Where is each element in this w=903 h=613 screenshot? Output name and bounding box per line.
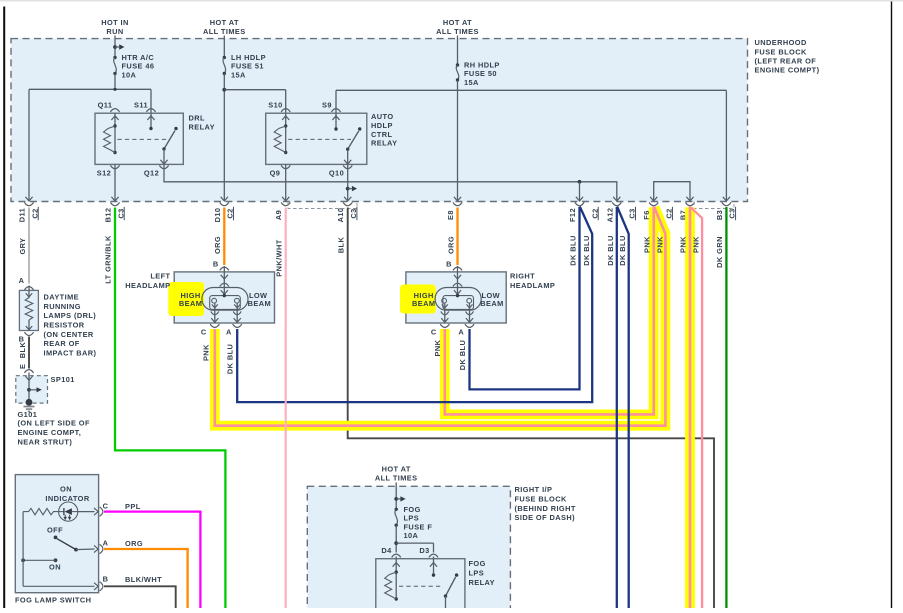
headlamp box RIGHT HEADLAMP	[406, 272, 506, 323]
svg-text:FOG LAMP SWITCH: FOG LAMP SWITCH	[15, 596, 91, 605]
svg-text:PNK/WHT: PNK/WHT	[275, 239, 284, 276]
svg-text:DK BLU: DK BLU	[606, 235, 615, 265]
fuse LH HDLP FUSE 51 15A	[223, 53, 266, 79]
wire DK GRN from B3	[725, 207, 727, 608]
svg-text:FUSE 46: FUSE 46	[122, 62, 155, 71]
svg-text:HEADLAMP: HEADLAMP	[125, 281, 170, 290]
svg-text:HOT AT: HOT AT	[382, 465, 411, 474]
svg-text:HOT AT: HOT AT	[210, 18, 239, 27]
wire DK BLU A12 (straight)	[616, 207, 618, 608]
underhood fuse block label	[755, 38, 820, 74]
relay pin S11	[134, 100, 156, 130]
pin A12 of underhood fuse block	[605, 197, 636, 223]
wire Q12 output bus	[164, 164, 617, 200]
relay switch contact (DRL)	[160, 127, 177, 165]
svg-text:RELAY: RELAY	[189, 122, 215, 131]
wire drop to pin D11	[28, 89, 30, 200]
relay box FOG LPS RELAY	[376, 559, 465, 612]
underhood fuse block box	[11, 39, 748, 202]
svg-text:ALL TIMES: ALL TIMES	[203, 27, 246, 36]
relay switch contact (FOG LPS)	[430, 557, 458, 609]
highlight HIGH BEAM text (RIGHT)	[400, 285, 436, 314]
bulb envelope (LEFT)	[202, 288, 248, 311]
wire drop to relay pin S11	[150, 89, 152, 113]
right I/P fuse block label	[515, 485, 576, 522]
svg-text:RH HDLP: RH HDLP	[464, 61, 500, 70]
svg-text:C: C	[103, 501, 109, 510]
svg-text:PNK: PNK	[202, 344, 211, 361]
relay coil (FOG LPS)	[385, 557, 400, 601]
svg-text:A12: A12	[605, 208, 614, 223]
relay actuation dashed link (DRL)	[118, 138, 168, 140]
ground G101	[18, 399, 38, 419]
pin C of fog lamp switch	[78, 501, 109, 516]
svg-text:HOT IN: HOT IN	[101, 18, 129, 27]
junction tap on Q10 output	[346, 187, 350, 191]
wire BLK/WHT from fog switch B	[104, 586, 176, 608]
svg-text:SP101: SP101	[51, 375, 75, 384]
highlight path LH high-beam circuit	[215, 207, 666, 426]
svg-text:DK BLU: DK BLU	[569, 235, 578, 265]
wire PNK F6 to left headlamp C	[215, 207, 666, 426]
svg-text:PNK: PNK	[679, 236, 688, 253]
pin B3 of underhood fuse block	[715, 197, 737, 220]
svg-text:BEAM: BEAM	[248, 299, 271, 308]
svg-text:10A: 10A	[404, 531, 419, 540]
svg-text:GRY: GRY	[18, 237, 27, 254]
svg-text:RELAY: RELAY	[469, 578, 495, 587]
svg-text:BLK: BLK	[337, 237, 346, 254]
node HOT AT ALL TIMES (fog)	[375, 465, 418, 510]
svg-text:A: A	[19, 276, 25, 285]
svg-text:LEFT: LEFT	[150, 271, 170, 280]
window frame right border	[891, 2, 893, 609]
relay actuation dashed link (AUTO HDLP)	[288, 138, 351, 140]
svg-text:Q10: Q10	[329, 168, 344, 177]
pin F6 of underhood fuse block	[642, 197, 673, 220]
svg-text:OFF: OFF	[47, 526, 63, 535]
wire ORG from E8 to right headlamp B	[456, 208, 458, 266]
svg-text:DRL: DRL	[189, 113, 206, 122]
svg-text:FUSE 51: FUSE 51	[231, 62, 264, 71]
svg-text:RELAY: RELAY	[371, 139, 397, 148]
headlamp box LEFT HEADLAMP	[174, 272, 274, 323]
svg-text:FOG: FOG	[404, 505, 421, 514]
label FOG LPS RELAY	[469, 559, 495, 587]
relay pin Q9	[270, 164, 291, 200]
bulb envelope (RIGHT)	[435, 288, 481, 311]
svg-text:(LEFT REAR OF: (LEFT REAR OF	[755, 56, 817, 65]
svg-text:SIDE OF DASH): SIDE OF DASH)	[515, 513, 576, 522]
highlight path RH high-beam circuit	[445, 207, 654, 414]
node HOT AT ALL TIMES (RH) feed	[436, 18, 479, 65]
svg-text:(ON LEFT SIDE OF: (ON LEFT SIDE OF	[18, 418, 90, 427]
pin A9 of underhood fuse block	[274, 197, 290, 220]
relay pin S10	[268, 100, 290, 126]
highlight HIGH BEAM text (LEFT)	[168, 282, 204, 316]
wire PNK/WHT from A9	[285, 208, 287, 609]
svg-text:CTRL: CTRL	[371, 130, 392, 139]
pin A10 of underhood fuse block	[336, 197, 358, 223]
junction tap on fog feed	[394, 497, 398, 501]
relay box AUTO HDLP CTRL RELAY	[266, 113, 367, 164]
svg-text:ALL TIMES: ALL TIMES	[375, 474, 418, 483]
LED ON indicator	[59, 502, 78, 521]
svg-text:Q12: Q12	[144, 168, 159, 177]
svg-text:RUNNING: RUNNING	[44, 302, 81, 311]
wire ORG from fog switch A	[104, 549, 188, 608]
svg-text:PPL: PPL	[125, 502, 141, 511]
wire fuse to relay pins D4/D3	[394, 525, 433, 552]
svg-text:RUN: RUN	[106, 27, 123, 36]
pin D11 of underhood fuse block	[18, 197, 40, 222]
pin A of DRL resistor	[19, 276, 34, 290]
svg-text:AUTO: AUTO	[371, 112, 393, 121]
pin B12 of underhood fuse block	[104, 197, 126, 223]
svg-text:PNK: PNK	[642, 236, 651, 253]
wire ORG from D10 to left headlamp B	[223, 208, 225, 266]
wire GRY from D11	[28, 208, 30, 284]
label DRL RELAY	[189, 113, 215, 131]
relay pin Q11	[98, 100, 120, 126]
pin B of fog lamp switch	[23, 574, 108, 591]
svg-text:RIGHT I/P: RIGHT I/P	[515, 485, 553, 494]
svg-text:HDLP: HDLP	[371, 121, 393, 130]
wire PNK B7 (straight)	[689, 207, 692, 609]
high beam filament (RIGHT)	[442, 298, 447, 303]
pin E8 of underhood fuse block	[446, 197, 462, 220]
svg-text:RESISTOR: RESISTOR	[44, 321, 85, 330]
svg-text:DK BLU: DK BLU	[458, 340, 467, 370]
svg-text:S11: S11	[134, 100, 148, 109]
fuse RH HDLP FUSE 50 15A	[456, 61, 500, 87]
svg-text:LAMPS (DRL): LAMPS (DRL)	[44, 311, 97, 320]
svg-text:DK BLU: DK BLU	[618, 235, 627, 265]
splice SP101	[16, 370, 75, 404]
relay pin S12	[97, 164, 120, 200]
node HOT IN RUN feed	[101, 18, 129, 58]
svg-text:A: A	[226, 327, 232, 336]
svg-text:B: B	[446, 259, 452, 268]
svg-text:REAR OF: REAR OF	[44, 339, 80, 348]
svg-text:Q11: Q11	[98, 100, 113, 109]
svg-text:DK BLU: DK BLU	[226, 344, 235, 374]
svg-text:E8: E8	[446, 210, 455, 220]
relay box DRL RELAY	[95, 113, 183, 164]
fuse FOG LPS FUSE F 10A	[395, 505, 433, 540]
svg-text:LH HDLP: LH HDLP	[231, 53, 266, 62]
label AUTO HDLP CTRL RELAY	[371, 112, 397, 147]
relay actuation dashed link (FOG LPS)	[399, 585, 441, 587]
svg-text:B: B	[103, 574, 109, 583]
svg-text:15A: 15A	[231, 70, 246, 79]
svg-text:(ON CENTER: (ON CENTER	[44, 330, 94, 339]
relay pin Q10	[329, 164, 352, 200]
wire bus S9 to B3	[336, 90, 726, 200]
pin B of DRL resistor	[19, 332, 34, 343]
low beam filament (LEFT)	[235, 298, 240, 303]
label ON INDICATOR	[45, 485, 89, 504]
svg-text:RIGHT: RIGHT	[510, 271, 535, 280]
svg-text:S10: S10	[268, 100, 282, 109]
svg-text:F12: F12	[568, 208, 577, 222]
relay coil (AUTO HDLP)	[285, 126, 287, 153]
relay pin Q12	[144, 165, 169, 177]
svg-text:PNK: PNK	[692, 236, 701, 253]
svg-text:ORG: ORG	[125, 539, 143, 548]
svg-text:DK BLU: DK BLU	[582, 235, 591, 265]
wire PNK F6 to right headlamp C	[445, 207, 654, 415]
svg-text:DAYTIME: DAYTIME	[44, 293, 80, 302]
relay pin D3	[419, 546, 438, 557]
wire BLK resistor to SP101	[28, 337, 30, 369]
window frame top edge	[0, 0, 903, 2]
svg-text:Q9: Q9	[270, 168, 281, 177]
svg-text:LT GRN/BLK: LT GRN/BLK	[103, 235, 112, 284]
svg-text:ENGINE COMPT): ENGINE COMPT)	[755, 66, 820, 75]
right I/P fuse block box	[307, 486, 510, 612]
svg-text:UNDERHOOD: UNDERHOOD	[755, 38, 807, 47]
wire branch to relay pin S10	[224, 90, 285, 114]
svg-text:HTR A/C: HTR A/C	[122, 53, 155, 62]
svg-text:BEAM: BEAM	[412, 299, 435, 308]
svg-text:B12: B12	[104, 208, 113, 223]
svg-text:DK GRN: DK GRN	[715, 236, 724, 268]
relay coil (DRL)	[114, 126, 116, 153]
wire DK BLU F12 to right headlamp A	[470, 207, 580, 389]
wire LH fuse to pin D10	[222, 74, 226, 201]
wire BLK from A10	[348, 208, 714, 609]
svg-text:LPS: LPS	[404, 514, 420, 523]
svg-text:BEAM: BEAM	[179, 299, 202, 308]
wire bus D11/Q11/S11	[29, 88, 151, 91]
relay pin S9	[322, 100, 341, 130]
pin B7 of underhood fuse block	[679, 197, 695, 220]
switch ON contact	[21, 512, 61, 587]
svg-text:ON: ON	[49, 562, 61, 571]
svg-text:ORG: ORG	[447, 236, 456, 254]
relay switch contact (AUTO HDLP)	[344, 127, 361, 164]
svg-text:S9: S9	[322, 100, 332, 109]
svg-text:D3: D3	[419, 546, 429, 555]
svg-text:BLK: BLK	[18, 342, 27, 359]
svg-text:HOT AT: HOT AT	[443, 18, 472, 27]
svg-text:PNK: PNK	[433, 339, 442, 356]
pin D10 of underhood fuse block	[213, 197, 235, 223]
svg-text:E: E	[18, 364, 27, 369]
svg-text:B: B	[213, 259, 219, 268]
fog lamp switch box	[15, 475, 98, 593]
svg-text:D4: D4	[381, 546, 392, 555]
switch OFF contact	[47, 526, 78, 552]
wire PNK B7 (jogged)	[691, 207, 703, 608]
svg-text:BEAM: BEAM	[480, 299, 503, 308]
wire jumper F6 to B7	[654, 182, 690, 201]
connector group dashed outline (B7/B3)	[694, 202, 734, 209]
svg-text:A: A	[103, 539, 109, 548]
svg-text:BLK/WHT: BLK/WHT	[125, 575, 162, 584]
highlight path B7 pink feed	[685, 207, 695, 608]
high beam filament (LEFT)	[212, 298, 217, 303]
pin A of LEFT headlamp	[233, 324, 242, 327]
relay pin D4	[381, 546, 400, 557]
svg-text:A: A	[458, 327, 464, 336]
low beam filament (RIGHT)	[467, 298, 472, 303]
svg-text:(BEHIND RIGHT: (BEHIND RIGHT	[515, 504, 576, 513]
window frame left border	[3, 7, 5, 609]
svg-text:FUSE BLOCK: FUSE BLOCK	[515, 495, 567, 504]
pin C of RIGHT headlamp	[440, 324, 449, 327]
wire LT GRN/BLK from B12	[115, 208, 225, 609]
svg-text:IMPACT BAR): IMPACT BAR)	[44, 348, 97, 357]
wire PPL from fog switch C	[104, 512, 200, 608]
wire DK BLU A12 (jogged)	[617, 207, 629, 609]
label G101 location	[18, 418, 90, 446]
node HOT AT ALL TIMES (LH) feed	[203, 18, 246, 58]
resistor DAYTIME RUNNING LAMPS (DRL)	[19, 286, 38, 331]
svg-text:FUSE 50: FUSE 50	[464, 69, 497, 78]
svg-text:S12: S12	[97, 168, 111, 177]
svg-text:NEAR STRUT): NEAR STRUT)	[18, 437, 73, 446]
svg-text:A10: A10	[336, 208, 345, 223]
svg-text:D11: D11	[18, 208, 27, 222]
pin F12 of underhood fuse block	[568, 197, 599, 222]
connector group dashed outline C3 (A9/A10)	[288, 202, 357, 209]
junction tap on HTR A/C feed	[113, 45, 117, 49]
svg-text:C: C	[431, 327, 437, 336]
svg-text:C: C	[201, 327, 207, 336]
wire DK BLU F12 to left headlamp A	[237, 207, 592, 403]
svg-text:PNK: PNK	[655, 236, 664, 253]
svg-text:FOG: FOG	[469, 559, 486, 568]
pin A of fog lamp switch	[76, 539, 109, 554]
svg-text:ALL TIMES: ALL TIMES	[436, 27, 479, 36]
svg-text:10A: 10A	[122, 70, 137, 79]
label DRL resistor	[44, 293, 97, 358]
svg-text:ENGINE COMPT,: ENGINE COMPT,	[18, 428, 82, 437]
svg-text:LPS: LPS	[469, 569, 485, 578]
svg-text:B3: B3	[715, 210, 724, 220]
svg-text:FUSE F: FUSE F	[404, 522, 433, 531]
svg-text:HEADLAMP: HEADLAMP	[510, 281, 555, 290]
pin C of LEFT headlamp	[210, 324, 219, 327]
svg-text:FUSE BLOCK: FUSE BLOCK	[755, 47, 807, 56]
wire RH fuse to pin E8	[457, 80, 459, 201]
pin A of RIGHT headlamp	[465, 324, 474, 327]
svg-text:ORG: ORG	[213, 236, 222, 254]
svg-text:15A: 15A	[464, 78, 479, 87]
resistor (indicator dropping)	[23, 508, 59, 514]
svg-text:A9: A9	[274, 210, 283, 220]
svg-text:D10: D10	[213, 208, 222, 223]
svg-text:ON: ON	[60, 485, 72, 494]
fuse HTR A/C FUSE 46 10A	[113, 53, 154, 89]
